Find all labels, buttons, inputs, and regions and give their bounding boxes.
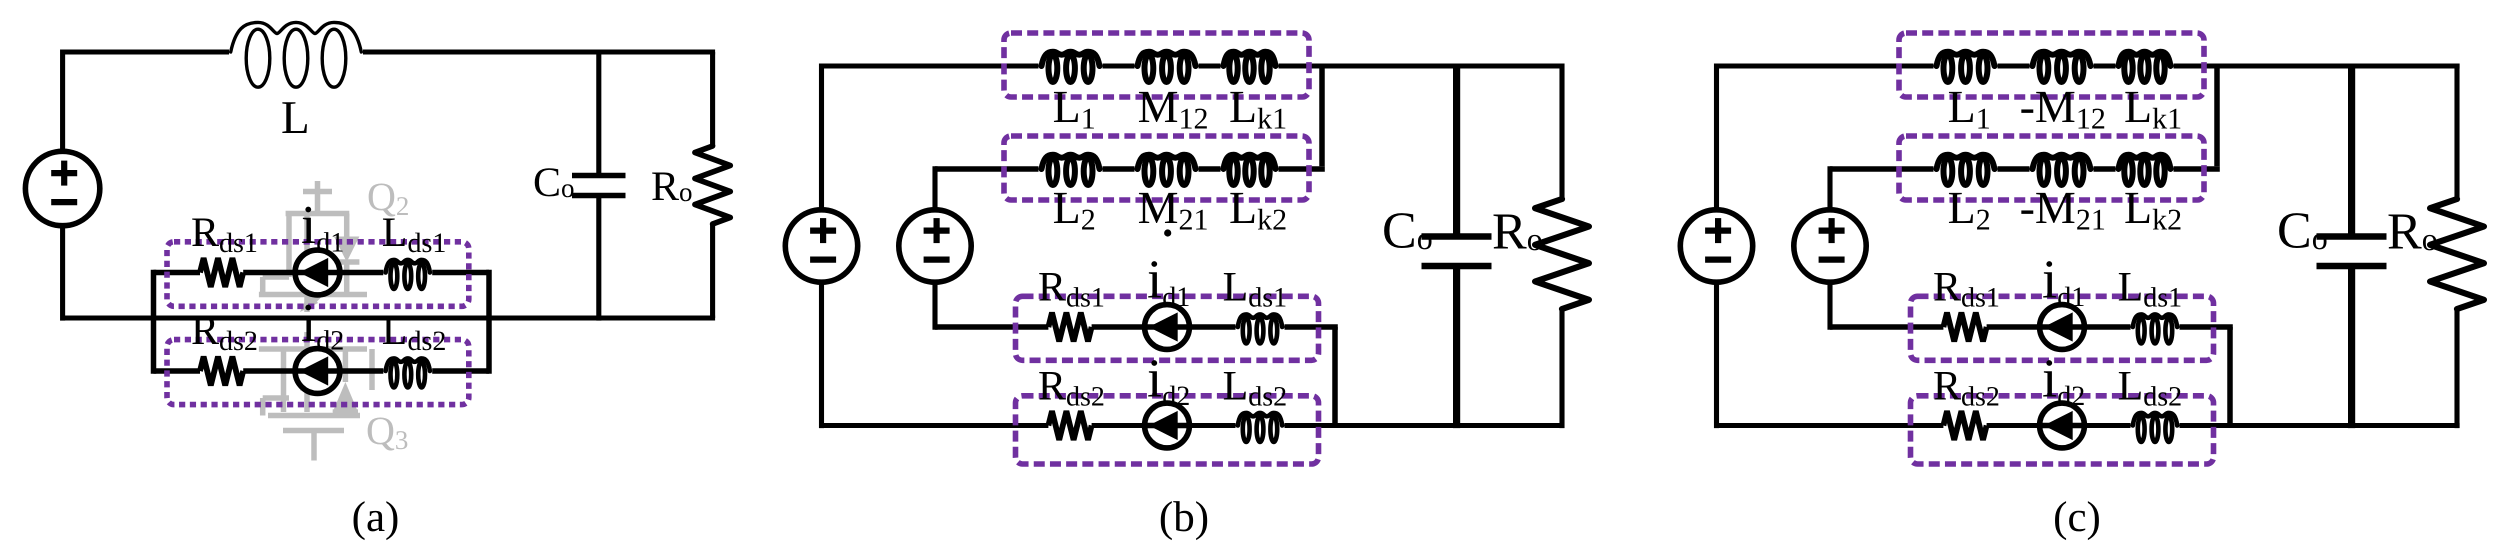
svg-text:(b): (b) (1159, 494, 1209, 541)
label L2 c (1948, 182, 1991, 237)
label Lk1 b (1229, 81, 1287, 136)
label Lds2 c (2118, 364, 2183, 413)
inductor L1 b (1042, 52, 1100, 82)
wire left-bottom lead a (60, 226, 65, 321)
wire branch3 c (1830, 324, 2233, 330)
label Rds1 (a) (191, 210, 258, 259)
transistor Q2 (gray) (259, 181, 367, 312)
resistor Ro c (2430, 64, 2484, 429)
inductor Lk2 c (2119, 155, 2171, 185)
svg-text:(c): (c) (2053, 494, 2101, 541)
svg-text:L: L (281, 92, 310, 144)
label L1 c (1948, 81, 1991, 136)
wire outer-source bottom lead b (819, 282, 824, 428)
resistor Rds2 c (1943, 411, 1986, 440)
inductor L1 c (1937, 52, 1995, 82)
label L1 b (1053, 81, 1096, 136)
label Rds2 b (1038, 364, 1105, 413)
label Ro c (2387, 204, 2438, 261)
label Lds1 c (2118, 265, 2183, 314)
resistor Rds2 b (1048, 411, 1091, 440)
label M12 b (1138, 81, 1209, 136)
svg-text:(a): (a) (352, 494, 400, 541)
wire branch3-down vertical b (1332, 327, 1338, 426)
inductor Lds2 b (1238, 413, 1282, 442)
inductor Lds1 (a) (386, 260, 430, 289)
inductor Lds2 (a) (386, 358, 430, 387)
wire inner-source top lead b (932, 166, 937, 210)
label -M21 c (2020, 182, 2106, 237)
voltage source Vin (a) (25, 151, 99, 225)
inductor M21 b (1138, 155, 1196, 185)
wire inner-source bottom lead c (1827, 282, 1832, 330)
label Lk2 c (2124, 182, 2182, 237)
inductor Lk2 b (1224, 155, 1276, 185)
wire branch3 b (935, 324, 1338, 330)
label id1 b (1147, 249, 1190, 314)
label id1 c (2042, 249, 2085, 314)
label (c) (2053, 494, 2101, 541)
wire bottom b (822, 423, 1565, 428)
wire top c (1717, 63, 2460, 68)
resistor Rds1 b (1048, 313, 1091, 342)
wire block-right vertical a (486, 270, 492, 374)
dashed box winding2 c (1899, 136, 2204, 200)
dashed box Q2 model b (1016, 396, 1319, 464)
label Ro b (1492, 204, 1543, 261)
label Lds2 b (1223, 364, 1288, 413)
dot mark under M21 b (1164, 229, 1171, 236)
voltage source inner b (899, 210, 971, 282)
dashed box Q1 model b (1016, 296, 1319, 360)
inductor M12 c (2033, 52, 2091, 82)
dashed box Q1 model (a top) (167, 242, 469, 306)
inductor Lk1 c (2119, 52, 2171, 82)
capacitor Co b (1422, 64, 1492, 429)
dashed box Q1 model c (1911, 296, 2214, 360)
label Ro (a) (651, 164, 693, 210)
resistor Ro (a) (695, 146, 730, 224)
label id1 (a) (301, 194, 344, 259)
dashed box winding2 b (1004, 136, 1309, 200)
wire top-right a (363, 49, 715, 54)
current source id1 c (2040, 305, 2085, 350)
resistor Rds1 c (1943, 313, 1986, 342)
dashed box winding1 b (1004, 33, 1309, 97)
capacitor Co (a) (572, 50, 626, 321)
label -M12 c (2020, 81, 2106, 136)
wire branch2 c (1830, 166, 2220, 172)
label L2 b (1053, 182, 1096, 237)
label Lk2 b (1229, 182, 1287, 237)
wire branch2 a (154, 368, 490, 374)
label Rds2 c (1933, 364, 2000, 413)
wire inner-source bottom lead b (932, 282, 937, 330)
label id2 (a) (301, 292, 344, 357)
label id2 c (2042, 348, 2085, 413)
wire top b (822, 63, 1565, 68)
inductor Lds2 c (2133, 413, 2177, 442)
dashed box winding1 c (1899, 33, 2204, 97)
wire right Ro-top lead a (710, 52, 715, 146)
label Rds1 b (1038, 265, 1105, 314)
wire top-left a (63, 49, 229, 54)
wire branch1 a (154, 270, 490, 276)
current source id2 c (2040, 403, 2085, 448)
inductor M12 b (1138, 52, 1196, 82)
dashed box Q2 model (a bottom) (167, 340, 469, 405)
inductor L2 b (1042, 155, 1100, 185)
label Co (a) (533, 160, 575, 206)
current source id2 (a) (295, 349, 340, 394)
label Lds2 (a) (382, 308, 447, 357)
wire inner-source top lead c (1827, 166, 1832, 210)
label Rds1 c (1933, 265, 2000, 314)
wire outer-source top lead b (819, 64, 824, 211)
wire branch3-down vertical c (2227, 327, 2233, 426)
resistor Ro b (1535, 64, 1589, 429)
wire outer-source top lead c (1714, 64, 1719, 211)
dashed box Q2 model c (1911, 396, 2214, 464)
label Co c (2277, 203, 2328, 260)
inductor Lds1 c (2133, 314, 2177, 343)
wire block-left vertical a (151, 270, 157, 374)
label Rds2 (a) (191, 308, 258, 357)
inductor Lds1 b (1238, 314, 1282, 343)
transistor Q3 (gray) (259, 332, 372, 461)
current source id1 b (1145, 305, 1190, 350)
label Lds1 (a) (382, 210, 447, 259)
wire right Ro-bottom lead a (710, 224, 715, 318)
inductor L2 c (1937, 155, 1995, 185)
label M21 b (1138, 182, 1209, 237)
resistor Rds1 (a) (200, 258, 243, 287)
label Co b (1382, 203, 1433, 260)
capacitor Co c (2317, 64, 2387, 429)
wire connector vertical b (1319, 66, 1325, 166)
label Lk1 c (2124, 81, 2182, 136)
inductor L (231, 22, 362, 87)
wire left-top lead a (60, 50, 65, 152)
label id2 b (1147, 348, 1190, 413)
wire bottom a (63, 315, 716, 320)
label (a) (352, 494, 400, 541)
wire outer-source bottom lead c (1714, 282, 1719, 428)
wire branch2 b (935, 166, 1325, 172)
wire bottom c (1717, 423, 2460, 428)
current source id2 b (1145, 403, 1190, 448)
label (b) (1159, 494, 1209, 541)
inductor Lk1 b (1224, 52, 1276, 82)
inductor M21 c (2033, 155, 2091, 185)
voltage source outer b (785, 210, 857, 282)
label L (281, 92, 310, 144)
wire connector vertical c (2214, 66, 2220, 166)
current source id1 (a) (295, 250, 340, 295)
label Lds1 b (1223, 265, 1288, 314)
voltage source inner c (1794, 210, 1866, 282)
label Q2 (367, 174, 409, 221)
label Q3 (366, 408, 408, 455)
voltage source outer c (1680, 210, 1752, 282)
resistor Rds2 (a) (200, 357, 243, 386)
